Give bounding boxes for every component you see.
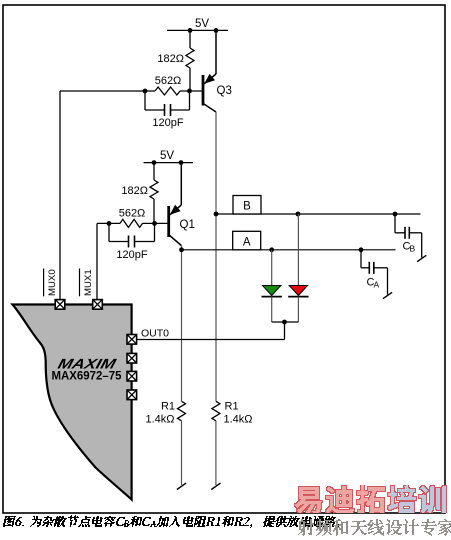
wire: MUX0 net horizontal to Q3 base <box>60 90 202 92</box>
box label A <box>233 231 261 250</box>
power rail 5V (Q3) <box>167 29 228 31</box>
svg-text:MUX1: MUX1 <box>83 269 94 296</box>
resistor 182ohm (Q1 base pull-up) <box>150 180 158 199</box>
resistor 182ohm (Q3 base pull-up) <box>186 48 194 68</box>
svg-text:MAX6972–75: MAX6972–75 <box>52 371 123 383</box>
wire: junction down to OUT0 line <box>284 322 286 340</box>
pin MUX1 <box>93 300 103 310</box>
svg-text:1.4kΩ: 1.4kΩ <box>145 414 174 426</box>
svg-text:5V: 5V <box>160 150 174 162</box>
node: Q1 base junction <box>152 221 157 226</box>
label MUX1 (rotated, with overbar) <box>79 269 81 297</box>
node: LED cathode junction <box>282 320 287 325</box>
svg-text:R1: R1 <box>225 401 239 413</box>
tick: R1 left off-page <box>177 483 186 489</box>
watermark logo text <box>295 485 389 513</box>
pin MUX0 <box>55 300 65 310</box>
wire: 5V rail to 182ohm (Q1) <box>153 163 155 180</box>
wire: Q3 collector column down to R1 <box>215 112 217 401</box>
capacitor 120pF (Q1) <box>109 241 129 243</box>
diode D red <box>289 286 307 296</box>
svg-text:Q3: Q3 <box>217 85 232 97</box>
resistor 562ohm (Q3) <box>155 87 180 95</box>
node: rail junction (182ohm, Q3) <box>188 28 193 33</box>
wire: 182ohm to Q1 base node <box>153 199 155 223</box>
svg-text:B: B <box>410 244 416 254</box>
IC U1 MAX6972-75 body <box>13 305 132 500</box>
wire: green LED anode <box>271 250 273 286</box>
resistor 562ohm (Q1) <box>120 219 143 227</box>
svg-text:MUX0: MUX0 <box>47 269 58 296</box>
svg-text:1.4kΩ: 1.4kΩ <box>224 414 253 426</box>
svg-text:562Ω: 562Ω <box>119 208 146 220</box>
wire / resistor R1 (Q1 side) <box>178 401 186 421</box>
capacitor 120pF (Q3) <box>145 109 165 111</box>
node: 562ohm left (Q3) <box>143 89 148 94</box>
node B / red LED <box>296 212 301 217</box>
node B on Q3 collector <box>214 212 219 217</box>
pin OUT0 <box>127 335 137 345</box>
diode D green <box>263 286 281 296</box>
pin (unconnected 4) <box>127 390 137 400</box>
wire: net B horizontal <box>216 213 421 215</box>
wire: 120pF branch (Q1) <box>109 223 155 241</box>
wire: LED cathode join bar <box>272 321 299 323</box>
wire / resistor R1 (Q3 side) <box>212 401 220 421</box>
wire: MUX0 vertical <box>59 91 61 300</box>
capacitor CA branch <box>360 250 362 268</box>
svg-text:120pF: 120pF <box>116 249 147 261</box>
svg-text:R1: R1 <box>161 401 175 413</box>
node: 562ohm left (Q1) <box>107 221 112 226</box>
node: rail junction (182ohm, Q1) <box>152 160 157 165</box>
svg-text:182Ω: 182Ω <box>157 53 184 65</box>
caption figure text (Chinese) <box>3 515 339 528</box>
wire: 120pF branch (Q3) <box>145 91 190 110</box>
tick: CA off-page <box>383 292 392 298</box>
wire: MUX1 net horizontal to Q1 base <box>97 222 168 224</box>
node: rail junction (Q1 emitter) <box>179 160 184 165</box>
tick: CB off-page <box>417 255 426 261</box>
node: rail junction (Q3 emitter) <box>214 28 219 33</box>
wire: red LED anode <box>297 214 299 286</box>
wire: red LED cathode <box>297 297 299 322</box>
node A / CA <box>359 247 364 252</box>
transistor Q3 (PNP) <box>215 30 217 74</box>
tick: R1 right off-page <box>211 483 220 489</box>
svg-text:120pF: 120pF <box>152 117 183 129</box>
node B / CB <box>393 212 398 217</box>
wire: 5V rail to 182ohm resistor <box>189 30 191 48</box>
node A on Q1 collector <box>179 247 184 252</box>
svg-text:Q1: Q1 <box>180 219 195 231</box>
wire: Q1 collector column down to R1 <box>181 246 183 402</box>
wire: OUT0 to LED junction <box>137 339 285 341</box>
svg-text:562Ω: 562Ω <box>155 75 182 87</box>
node A / green LED <box>269 247 274 252</box>
watermark subtitle text <box>298 519 451 536</box>
wire: 182ohm to Q3 base node <box>189 68 191 91</box>
svg-text:5V: 5V <box>195 18 209 30</box>
capacitor CB branch <box>394 214 396 233</box>
power rail 5V (Q1) <box>144 162 193 164</box>
box label B <box>233 196 261 215</box>
svg-text:A: A <box>374 280 380 290</box>
pin (unconnected 3) <box>127 371 137 381</box>
svg-text:B: B <box>243 201 251 213</box>
wire: net A horizontal <box>182 249 396 251</box>
wire: MUX1 vertical <box>96 223 98 299</box>
svg-text:OUT0: OUT0 <box>141 328 169 340</box>
transistor Q1 (PNP) <box>180 163 182 205</box>
label MUX0 (rotated, with overbar) <box>43 269 45 297</box>
svg-text:A: A <box>243 236 251 248</box>
node: Q3 base junction <box>187 89 192 94</box>
wire: green LED cathode <box>271 297 273 322</box>
svg-text:182Ω: 182Ω <box>121 185 148 197</box>
pin (unconnected 2) <box>127 353 137 363</box>
